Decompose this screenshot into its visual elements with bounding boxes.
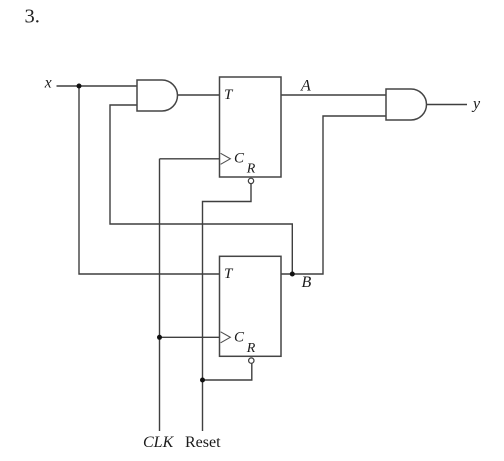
svg-text:C: C (234, 151, 245, 167)
svg-text:T: T (224, 87, 234, 103)
svg-text:T: T (224, 266, 234, 282)
svg-text:x: x (44, 75, 52, 92)
svg-text:CLK: CLK (143, 434, 175, 451)
svg-text:R: R (246, 341, 256, 356)
svg-text:3.: 3. (25, 6, 40, 28)
svg-text:R: R (246, 162, 256, 177)
svg-text:A: A (300, 78, 311, 95)
svg-text:C: C (234, 329, 245, 345)
svg-text:y: y (471, 96, 481, 113)
svg-text:B: B (302, 274, 312, 291)
svg-text:Reset: Reset (185, 434, 221, 451)
